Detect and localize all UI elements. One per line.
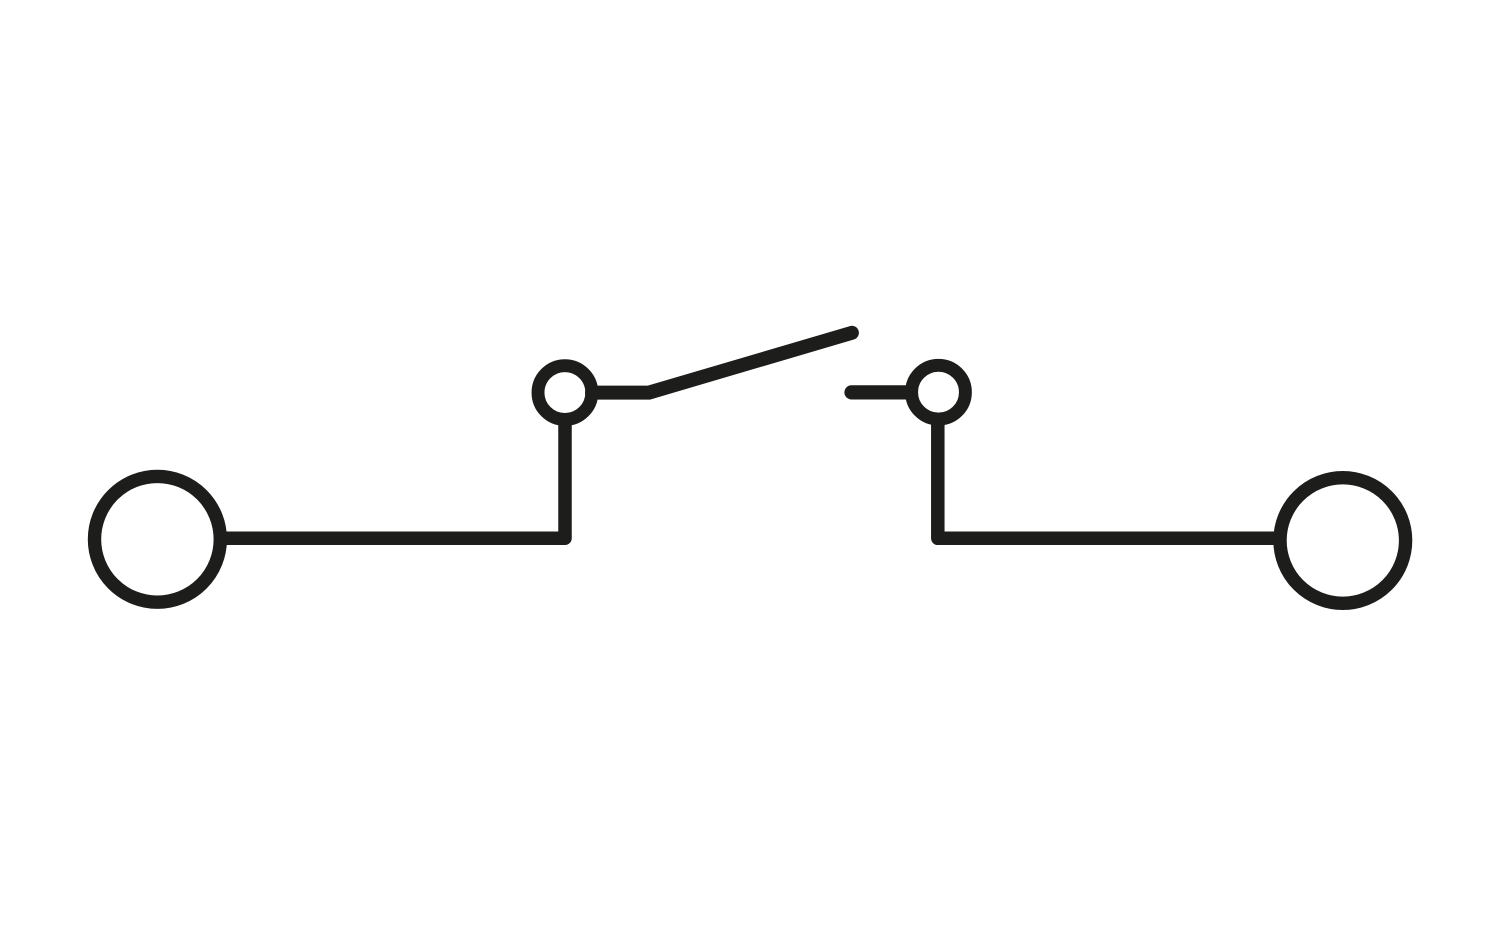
terminal circle left (clamp point 1) xyxy=(94,476,220,602)
switch blade (open knife disconnect lever) xyxy=(592,333,852,393)
contact pivot circle left xyxy=(538,366,592,420)
contact circle right xyxy=(912,365,966,419)
wire: right riser down with horizontal segment xyxy=(938,419,1281,538)
wire: left horizontal segment with riser to movable contact xyxy=(218,419,565,538)
terminal circle right (clamp point 2) xyxy=(1280,478,1406,604)
fixed contact stub (dash) right xyxy=(852,385,911,399)
